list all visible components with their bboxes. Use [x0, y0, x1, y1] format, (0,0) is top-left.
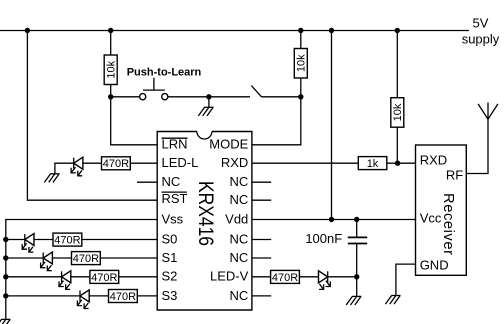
- node bus-S3: [3, 293, 8, 298]
- wire rail to Vcc vertical: [331, 31, 333, 220]
- ground (capacitor): [346, 296, 361, 305]
- LED D1 (LED-L): [71, 157, 83, 176]
- wire receiver GND: [396, 264, 416, 295]
- LED D6 (LED-V): [319, 271, 331, 290]
- ground (receiver): [385, 296, 400, 305]
- node button ground junction: [206, 94, 211, 99]
- svg-text:S3: S3: [162, 288, 178, 303]
- svg-text:NC: NC: [162, 174, 181, 189]
- node LRN junction: [108, 94, 113, 99]
- svg-text:470R: 470R: [91, 272, 117, 284]
- wire R4 to receiver RXD: [387, 162, 416, 164]
- pushbutton Push-to-Learn: [140, 78, 168, 100]
- wire R2 to MODE node: [300, 78, 302, 97]
- capacitor C1 100nF: [348, 237, 367, 243]
- node rail-R3 junction: [395, 28, 400, 33]
- svg-text:100nF: 100nF: [305, 231, 342, 246]
- wire R10 to D6: [299, 276, 318, 278]
- svg-text:10k: 10k: [392, 103, 404, 121]
- ground (LED-L): [44, 163, 73, 182]
- wire ground stub: [208, 97, 210, 108]
- wire R5 to LED-L pin: [130, 162, 157, 164]
- svg-text:LED-V: LED-V: [210, 269, 249, 284]
- svg-text:RXD: RXD: [221, 155, 248, 170]
- wire bus to D3: [6, 257, 43, 259]
- wire LRN node to button: [111, 96, 140, 98]
- LED D5 (S3): [77, 290, 89, 309]
- wire D5 to R9: [89, 295, 108, 297]
- svg-text:RF: RF: [446, 167, 463, 182]
- svg-text:LRN: LRN: [162, 137, 188, 152]
- wire bus to D5: [6, 295, 80, 297]
- IC U1 KRX416: [157, 132, 252, 311]
- RF receiver module U2: [416, 145, 467, 275]
- wire R7 to S1 pin: [100, 257, 157, 259]
- antenna: [478, 103, 498, 120]
- svg-text:KRX416: KRX416: [194, 181, 217, 246]
- wire D4 to R8: [71, 276, 90, 278]
- svg-text:470R: 470R: [54, 235, 80, 247]
- svg-text:470R: 470R: [103, 158, 129, 170]
- svg-text:Vss: Vss: [162, 211, 184, 226]
- wire switch to MODE node: [262, 96, 301, 98]
- svg-text:10k: 10k: [295, 54, 307, 72]
- switch mode-select lever: [251, 86, 261, 97]
- resistor R9 470R: [109, 290, 138, 303]
- wire R6 to S0 pin: [82, 239, 157, 241]
- svg-text:NC: NC: [230, 192, 249, 207]
- node MODE junction: [298, 94, 303, 99]
- svg-text:NC: NC: [230, 174, 249, 189]
- resistor R8 470R: [90, 270, 119, 283]
- wire bus to D4: [6, 276, 62, 278]
- wire cap bottom: [356, 244, 358, 297]
- resistor R4 1k: [358, 157, 387, 170]
- svg-text:S0: S0: [162, 231, 178, 246]
- wire bus to D2: [6, 239, 25, 241]
- svg-text:Vdd: Vdd: [225, 211, 248, 226]
- wire 5V top rail: [0, 30, 469, 32]
- svg-text:470R: 470R: [110, 291, 136, 303]
- resistor R7 470R: [72, 252, 101, 265]
- LED D4 (S2): [59, 271, 71, 290]
- ground (push-button): [198, 107, 213, 116]
- LED D2 (S0): [22, 234, 34, 253]
- node Vcc-rail junction: [329, 217, 334, 222]
- wire R3 to RXD node: [396, 127, 398, 163]
- wire R8 to S2 pin: [119, 276, 158, 278]
- ground (bus): [0, 319, 10, 324]
- wire Vdd to receiver Vcc: [252, 219, 416, 221]
- wire R9 to S3 pin: [137, 295, 157, 297]
- resistor R2 10k: [294, 49, 307, 79]
- resistor R5 470R: [102, 157, 131, 170]
- node RXD junction: [395, 161, 400, 166]
- node bus-S2: [3, 274, 8, 279]
- svg-text:Push-to-Learn: Push-to-Learn: [127, 67, 202, 79]
- wire Vss to ground bus: [6, 220, 157, 320]
- node LED-V ground junction: [354, 274, 359, 279]
- wire button to ground node: [168, 96, 250, 98]
- svg-text:1k: 1k: [367, 158, 379, 170]
- svg-text:NC: NC: [230, 231, 249, 246]
- svg-text:470R: 470R: [73, 253, 99, 265]
- svg-text:supply: supply: [462, 31, 500, 46]
- wire cap top: [356, 220, 358, 238]
- svg-text:MODE: MODE: [209, 137, 248, 152]
- svg-text:Vcc: Vcc: [420, 210, 442, 225]
- svg-text:RST: RST: [162, 191, 188, 206]
- wire rail to R2: [300, 31, 302, 49]
- node Vcc-cap junction: [354, 217, 359, 222]
- svg-text:Receiver: Receiver: [440, 193, 456, 255]
- svg-text:S2: S2: [162, 269, 178, 284]
- wire MODE node to MODE pin: [252, 97, 301, 145]
- resistor R10 470R: [271, 270, 300, 283]
- node rail-RST junction: [25, 28, 30, 33]
- wire D6 to ground node: [328, 276, 357, 278]
- svg-text:LED-L: LED-L: [162, 155, 199, 170]
- svg-text:10k: 10k: [105, 60, 117, 78]
- resistor R6 470R: [53, 233, 82, 246]
- wire RXD pin to R4: [252, 162, 358, 164]
- resistor R1 10k: [104, 55, 117, 85]
- wire R1 to LRN node: [110, 85, 112, 97]
- wire LRN node down to LRN pin: [111, 97, 158, 145]
- svg-text:S1: S1: [162, 250, 178, 265]
- node bus-S0: [3, 237, 8, 242]
- wire LED to R5: [83, 162, 102, 164]
- wire rail to R3: [396, 31, 398, 98]
- wire rail to R1: [110, 31, 112, 56]
- node rail-Vdd junction: [329, 28, 334, 33]
- node bus-S1: [3, 255, 8, 260]
- svg-text:RXD: RXD: [420, 153, 447, 168]
- wire RST pull-up vertical: [27, 31, 157, 201]
- resistor R3 10k: [391, 98, 404, 128]
- wire D2 to R6: [34, 239, 53, 241]
- svg-text:NC: NC: [230, 288, 249, 303]
- svg-text:GND: GND: [420, 257, 449, 272]
- svg-text:5V: 5V: [473, 15, 489, 30]
- wire D3 to R7: [52, 257, 71, 259]
- node rail-R2 junction: [298, 28, 303, 33]
- node rail-R1 junction: [108, 28, 113, 33]
- svg-text:NC: NC: [230, 250, 249, 265]
- wire LED-V pin to R10: [252, 276, 271, 278]
- wire RF to antenna: [466, 119, 488, 173]
- svg-text:470R: 470R: [272, 272, 298, 284]
- LED D3 (S1): [41, 252, 53, 271]
